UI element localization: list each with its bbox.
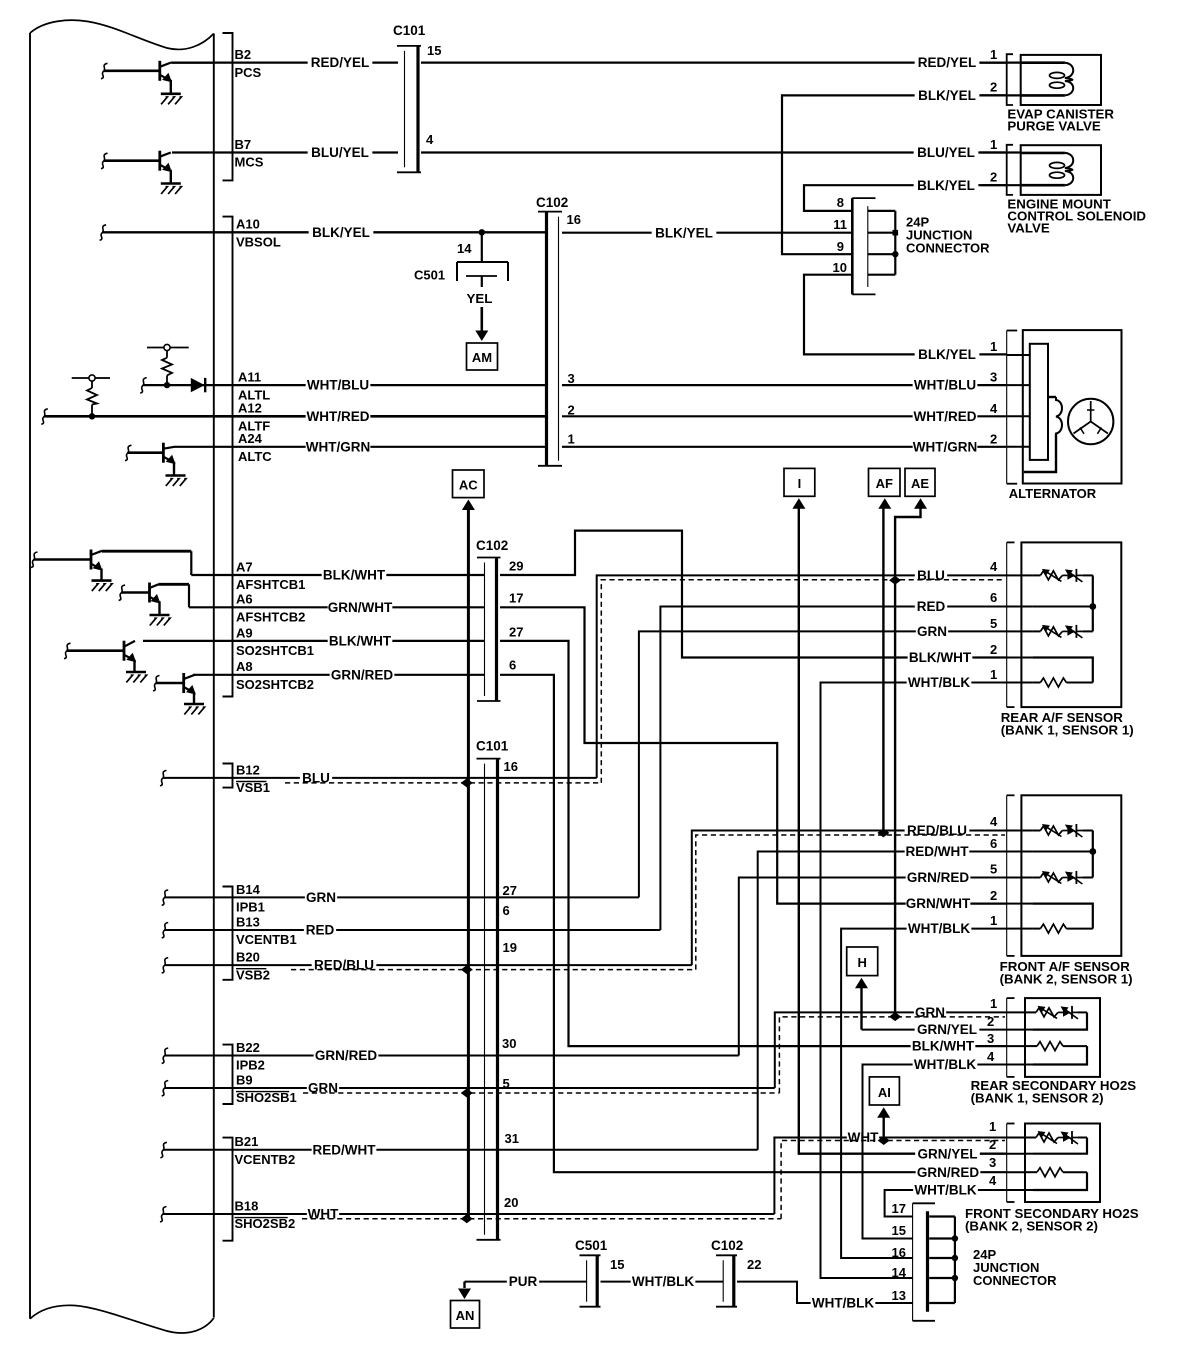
- svg-text:YEL: YEL: [467, 291, 493, 306]
- connector bracket pin B12: [223, 764, 233, 788]
- ground for Q1: [161, 93, 181, 96]
- svg-text:15: 15: [610, 1257, 624, 1272]
- svg-text:2: 2: [990, 888, 997, 903]
- svg-text:(BANK 1, SENSOR 2): (BANK 1, SENSOR 2): [971, 1091, 1104, 1106]
- svg-text:PUR: PUR: [509, 1274, 538, 1289]
- svg-text:9: 9: [837, 239, 844, 254]
- wire: WHT/BLK front secondary pin4 to junction pin17: [885, 1190, 1007, 1217]
- svg-text:1: 1: [989, 1119, 996, 1134]
- wire: [101, 153, 108, 169]
- wire arrow to AE: [914, 498, 927, 509]
- wire: B22 row GRN/RED (IPB2): [162, 1048, 169, 1064]
- svg-text:3: 3: [990, 370, 997, 385]
- label box AM (to another page): [467, 343, 498, 370]
- rear A/F sensor (bank 1, sensor 1): [1007, 542, 1122, 707]
- wire label BLK/YEL (EVAP): [915, 88, 980, 103]
- connector C102 (top): [538, 211, 562, 213]
- wire arrow to AI: [877, 1107, 890, 1118]
- svg-text:2: 2: [990, 80, 997, 95]
- rear secondary HO2S (bank 1, sensor 2): [1007, 998, 1100, 1077]
- node: shield diamond VSB1: [461, 778, 473, 787]
- wire label GRN: [305, 890, 337, 905]
- 24P junction connector (top): [852, 198, 895, 294]
- svg-text:WHT/BLU: WHT/BLU: [307, 378, 369, 393]
- node: shield diamond rear A/F (VSB1): [889, 576, 901, 585]
- svg-text:4: 4: [990, 401, 998, 416]
- node: junction dot ALTF/pull-up: [89, 413, 95, 419]
- svg-text:VCENTB1: VCENTB1: [236, 932, 297, 947]
- svg-text:4: 4: [990, 814, 998, 829]
- svg-text:22: 22: [747, 1257, 761, 1272]
- wire: WHT/BLK rear secondary pin4 to junction pin15: [863, 1065, 1007, 1239]
- svg-text:B13: B13: [236, 914, 260, 929]
- wire: [125, 445, 132, 461]
- svg-text:(BANK 1, SENSOR 1): (BANK 1, SENSOR 1): [1001, 723, 1134, 738]
- node: junction dot pin16 bus: [952, 1255, 958, 1261]
- svg-text:17: 17: [509, 591, 523, 606]
- wire label BLU (rear A/F): [915, 568, 947, 583]
- svg-text:A9: A9: [236, 625, 253, 640]
- svg-text:(BANK 2, SENSOR 2): (BANK 2, SENSOR 2): [965, 1219, 1098, 1234]
- front secondary HO2S (bank 2, sensor 2): [1007, 1124, 1100, 1203]
- svg-text:BLU/YEL: BLU/YEL: [917, 145, 975, 160]
- wire: BLK/YEL row A10 from C102-16 to junction pin11: [562, 232, 852, 234]
- svg-text:15: 15: [892, 1223, 906, 1238]
- svg-text:GRN/WHT: GRN/WHT: [906, 896, 971, 911]
- wire: BLK/YEL engine mount pin2 to junction pin8: [804, 185, 1007, 211]
- label box AI (to another page): [869, 1077, 899, 1105]
- wire: PUR to AN: [465, 1281, 587, 1283]
- wire: WHT/BLK from C501-15 to C102-22: [601, 1281, 724, 1283]
- svg-text:B7: B7: [235, 137, 252, 152]
- wire: WHT/RED from C102-2 to alternator pin4: [562, 415, 1007, 417]
- wire: junction pin10 to alternator BLK/YEL: [804, 275, 1007, 355]
- wire label GRN/RED: [330, 667, 395, 682]
- svg-text:6: 6: [990, 836, 997, 851]
- wire label BLU/YEL (right): [914, 145, 979, 160]
- svg-text:A11: A11: [238, 370, 261, 385]
- svg-text:20: 20: [504, 1195, 518, 1210]
- svg-text:A7: A7: [236, 559, 253, 574]
- svg-text:CONNECTOR: CONNECTOR: [906, 241, 990, 256]
- svg-text:PCS: PCS: [235, 65, 262, 80]
- svg-text:(BANK 2, SENSOR 1): (BANK 2, SENSOR 1): [1000, 972, 1133, 987]
- svg-text:B12: B12: [236, 762, 260, 777]
- svg-text:13: 13: [892, 1288, 906, 1303]
- svg-text:BLU: BLU: [917, 568, 945, 583]
- node: junction dot ALTL/pull-up: [164, 382, 170, 388]
- svg-text:C501: C501: [414, 268, 445, 283]
- svg-text:GRN/YEL: GRN/YEL: [917, 1022, 977, 1037]
- svg-text:B2: B2: [235, 47, 252, 62]
- svg-text:WHT/BLK: WHT/BLK: [914, 1183, 976, 1198]
- svg-text:BLK/WHT: BLK/WHT: [323, 568, 386, 583]
- svg-text:1: 1: [990, 137, 997, 152]
- svg-text:GRN/YEL: GRN/YEL: [917, 1146, 977, 1161]
- svg-text:1: 1: [990, 996, 997, 1011]
- wire label GRN: [307, 1081, 339, 1096]
- connector bracket pins B14-B20: [223, 887, 233, 980]
- wire: I line down to front secondary HO2S GRN/YEL: [799, 508, 1007, 1154]
- svg-text:WHT/GRN: WHT/GRN: [913, 439, 978, 454]
- wire label BLK/WHT (rear A/F): [908, 650, 973, 665]
- svg-text:WHT/BLK: WHT/BLK: [632, 1274, 694, 1289]
- wire label WHT/BLK (bottom): [631, 1274, 696, 1289]
- svg-text:1: 1: [990, 667, 997, 682]
- svg-text:14: 14: [457, 241, 472, 256]
- wire label BLK/WHT (rear secondary): [911, 1039, 976, 1054]
- connector C101 (top): [397, 45, 421, 47]
- svg-text:A24: A24: [238, 431, 263, 446]
- wire: B13 row RED (VCENTB1): [162, 923, 169, 939]
- connector bracket pins B2-B7: [223, 33, 233, 180]
- wire label RED/YEL (right): [915, 55, 980, 70]
- svg-text:VSB1: VSB1: [236, 780, 270, 795]
- wire label RED (rear A/F): [915, 599, 947, 614]
- wire arrow to AF: [878, 498, 891, 509]
- svg-text:17: 17: [892, 1201, 906, 1216]
- svg-text:2: 2: [990, 170, 997, 185]
- wire: WHT/BLK rear A/F pin1 to junction pin14: [821, 683, 1007, 1279]
- svg-text:GRN/WHT: GRN/WHT: [328, 600, 393, 615]
- wire label WHT: [307, 1207, 339, 1222]
- svg-text:C101: C101: [393, 23, 426, 38]
- node: junction dot pin15 bus: [952, 1235, 958, 1241]
- wire label WHT/RED (right): [913, 409, 978, 424]
- svg-text:GRN/RED: GRN/RED: [315, 1048, 378, 1063]
- wire: RED/YEL from C101-15 to EVAP valve pin1: [421, 61, 1007, 63]
- svg-text:1: 1: [990, 47, 997, 62]
- svg-text:8: 8: [837, 195, 844, 210]
- wire: RED B13 riser to rear A/F sensor pin6: [660, 607, 1006, 931]
- ground for Q2: [161, 182, 181, 185]
- wire label BLU: [300, 770, 332, 785]
- svg-text:AFSHTCB1: AFSHTCB1: [236, 577, 305, 592]
- wire: B18 row WHT (SHO2SB2): [160, 1207, 167, 1223]
- svg-text:10: 10: [833, 260, 847, 275]
- svg-text:SO2SHTCB2: SO2SHTCB2: [236, 677, 314, 692]
- svg-text:30: 30: [502, 1036, 516, 1051]
- svg-text:BLU/YEL: BLU/YEL: [311, 145, 369, 160]
- connector bracket pins B22-B9: [223, 1045, 233, 1104]
- svg-text:RED/YEL: RED/YEL: [311, 55, 370, 70]
- svg-text:27: 27: [503, 883, 517, 898]
- svg-text:3: 3: [568, 371, 575, 386]
- svg-text:I: I: [798, 476, 802, 491]
- wire label RED: [304, 923, 336, 938]
- pull-up resistor on ALTF line: [72, 375, 110, 416]
- wire: RED/BLU B20 riser to front A/F sensor pin4: [692, 831, 1007, 966]
- svg-text:GRN/RED: GRN/RED: [907, 870, 970, 885]
- svg-text:4: 4: [426, 132, 434, 147]
- svg-text:AF: AF: [876, 476, 893, 491]
- svg-text:A6: A6: [236, 592, 253, 607]
- shield dashed riser SHO2SB1: [779, 1017, 1005, 1093]
- EVAP canister purge valve: [980, 54, 1101, 105]
- wire: RED/WHT B21 riser to front A/F sensor pin6: [758, 852, 1007, 1150]
- shield dashed riser SHO2SB2: [781, 1141, 1005, 1219]
- wire: GRN/YEL rear secondary pin2 to H riser: [862, 1029, 1007, 1031]
- svg-text:BLK/YEL: BLK/YEL: [655, 225, 713, 240]
- svg-text:11: 11: [833, 217, 847, 232]
- node: shield diamond front secondary HO2S: [878, 1136, 890, 1145]
- svg-text:WHT/BLU: WHT/BLU: [914, 378, 976, 393]
- wire label BLK/WHT: [328, 633, 393, 648]
- wire: BLK/WHT C102-27 to rear secondary HO2S pin3: [500, 641, 1007, 1046]
- svg-text:5: 5: [990, 616, 997, 631]
- wire: A9 row BLK/WHT to C102 pin27: [143, 640, 484, 642]
- svg-text:19: 19: [503, 940, 517, 955]
- wire label GRN/RED: [314, 1048, 379, 1063]
- svg-text:4: 4: [989, 1173, 997, 1188]
- wire: BLU/YEL from C101-4 to engine mount valve pin1: [421, 151, 1007, 153]
- wire: [101, 63, 108, 79]
- svg-text:AC: AC: [459, 478, 478, 493]
- svg-text:2: 2: [989, 1137, 996, 1152]
- svg-text:ALTERNATOR: ALTERNATOR: [1009, 486, 1097, 501]
- wire label WHT/BLK (rear A/F): [907, 675, 972, 690]
- svg-text:14: 14: [892, 1265, 907, 1280]
- svg-text:GRN/RED: GRN/RED: [917, 1165, 980, 1180]
- svg-text:BLK/YEL: BLK/YEL: [918, 347, 976, 362]
- svg-text:A8: A8: [236, 659, 253, 674]
- wire label GRN/WHT: [328, 600, 393, 615]
- wire label BLU/YEL: [308, 145, 373, 160]
- node: junction dot BLK/YEL at C501 tap: [479, 229, 485, 235]
- wire label WHT/BLU: [306, 378, 371, 393]
- svg-text:5: 5: [503, 1076, 510, 1091]
- shield dashed riser VSB1: [601, 580, 1005, 783]
- ground for Q7: [184, 703, 204, 706]
- wire label RED/BLU: [312, 958, 377, 973]
- svg-text:29: 29: [509, 559, 523, 574]
- svg-text:VALVE: VALVE: [1007, 221, 1049, 236]
- wire: GRN/RED B22 riser to front A/F sensor pin5: [739, 878, 1007, 1056]
- label box AF (to another page): [869, 468, 901, 496]
- wire: AF shield line down to front A/F sensor shield: [882, 508, 884, 833]
- wire: WHT/BLK front A/F pin1 to junction pin16: [841, 929, 1007, 1258]
- wire label WHT/GRN (right): [913, 439, 978, 454]
- alternator: [1007, 330, 1122, 484]
- svg-text:4: 4: [987, 1049, 995, 1064]
- svg-text:BLK/WHT: BLK/WHT: [329, 634, 392, 649]
- svg-text:16: 16: [892, 1245, 906, 1260]
- label box H (to another page): [847, 947, 878, 976]
- wire: A6 row GRN/WHT to C102 pin17: [189, 606, 484, 608]
- svg-text:RED/YEL: RED/YEL: [918, 55, 977, 70]
- wire arrow to I: [792, 498, 805, 509]
- svg-text:BLK/WHT: BLK/WHT: [909, 650, 972, 665]
- wire label GRN/YEL (front secondary): [915, 1146, 980, 1161]
- svg-text:C102: C102: [536, 195, 568, 210]
- svg-text:6: 6: [509, 658, 516, 673]
- svg-text:MCS: MCS: [235, 155, 264, 170]
- svg-text:1: 1: [990, 339, 997, 354]
- ground for Q6: [126, 671, 146, 674]
- svg-text:VSB2: VSB2: [236, 967, 270, 982]
- svg-text:AE: AE: [911, 476, 929, 491]
- wire: ALTC row A24 WHT/GRN to C102: [174, 446, 545, 448]
- ECM control module outline (left, torn edges): [30, 20, 214, 1333]
- node: shield diamond rear secondary HO2S: [889, 1012, 901, 1021]
- shield dashed line for VSB2: [291, 969, 696, 971]
- wire: WHT B18 riser to front secondary HO2S pin1: [774, 1138, 1006, 1215]
- connector C101 (bottom): [477, 758, 501, 760]
- label box I (to another page): [784, 468, 815, 496]
- wire: BLU VSB1 riser to rear A/F sensor pin4: [597, 575, 1007, 778]
- wire arrow to AN: [463, 1282, 465, 1288]
- wire label WHT/BLK (junction 13): [811, 1296, 876, 1311]
- node: junction dot pin11 bus: [893, 230, 899, 236]
- connector C501 (bottom): [580, 1254, 601, 1256]
- wire label WHT/BLU (right): [913, 378, 978, 393]
- wire arrow to H: [855, 978, 868, 989]
- svg-text:BLK/YEL: BLK/YEL: [917, 178, 975, 193]
- connector bracket pins A10-A8: [223, 217, 233, 697]
- svg-text:WHT/BLK: WHT/BLK: [908, 675, 970, 690]
- ground for Q5: [150, 614, 170, 617]
- wire: ALTL row A11 WHT/BLU to C102: [140, 378, 147, 394]
- wire label RED/YEL: [308, 55, 373, 70]
- svg-text:IPB2: IPB2: [236, 1058, 265, 1073]
- svg-text:6: 6: [990, 590, 997, 605]
- wire label RED/BLU (front A/F): [905, 823, 970, 838]
- svg-text:RED: RED: [306, 923, 335, 938]
- wire: B14 row GRN (IPB1): [162, 890, 169, 906]
- shield dashed line for VSB1: [285, 782, 601, 784]
- svg-text:RED/WHT: RED/WHT: [906, 844, 970, 859]
- wire label WHT/BLK (front secondary): [913, 1183, 978, 1198]
- wire label GRN/YEL (rear secondary): [915, 1022, 980, 1037]
- wire: B21 row RED/WHT (VCENTB2): [160, 1142, 167, 1158]
- wire label BLK/YEL (junction): [652, 225, 717, 240]
- shield dashed line for SHO2SB2: [302, 1218, 781, 1220]
- wire: BLK/WHT C102-29 to rear A/F sensor pin2: [500, 531, 1007, 658]
- svg-text:WHT/BLK: WHT/BLK: [908, 921, 970, 936]
- wire arrow to AC (shield bus): [462, 500, 475, 511]
- node: shield diamond SHO2SB1: [461, 1089, 473, 1098]
- svg-text:27: 27: [509, 625, 523, 640]
- shield dashed riser VSB2: [696, 835, 1005, 970]
- svg-text:B20: B20: [236, 950, 260, 965]
- connector C102 (middle): [477, 557, 501, 559]
- wire label RED/WHT (front A/F): [905, 844, 970, 859]
- wire: ALTF row A12 WHT/RED to C102: [41, 409, 48, 425]
- svg-text:2: 2: [990, 642, 997, 657]
- wire label BLK/WHT: [322, 568, 387, 583]
- svg-text:B9: B9: [236, 1072, 253, 1087]
- wire: [153, 676, 160, 692]
- svg-text:3: 3: [989, 1155, 996, 1170]
- wire: GRN/WHT C102-17 to front A/F sensor pin2: [500, 607, 1007, 903]
- svg-text:15: 15: [427, 43, 441, 58]
- svg-text:RED: RED: [917, 599, 946, 614]
- svg-text:GRN: GRN: [306, 890, 336, 905]
- svg-text:RED/WHT: RED/WHT: [313, 1142, 377, 1157]
- svg-text:GRN/RED: GRN/RED: [331, 667, 394, 682]
- svg-text:IPB1: IPB1: [236, 900, 265, 915]
- svg-text:C501: C501: [575, 1238, 608, 1253]
- ground for Q4: [92, 579, 112, 582]
- svg-text:AN: AN: [456, 1308, 475, 1323]
- front A/F sensor (bank 2, sensor 1): [1007, 795, 1122, 956]
- svg-text:16: 16: [504, 759, 518, 774]
- node: shield diamond front A/F: [877, 828, 889, 837]
- transistor Q4 (AFSHTCB1 driver): [31, 550, 191, 581]
- diode D1 on ALTL line: [191, 378, 205, 392]
- svg-text:WHT/RED: WHT/RED: [307, 409, 370, 424]
- svg-text:BLK/WHT: BLK/WHT: [912, 1039, 975, 1054]
- svg-text:B18: B18: [235, 1198, 259, 1213]
- svg-text:C102: C102: [711, 1238, 743, 1253]
- wire: A7 row BLK/WHT to C102 pin29: [191, 574, 484, 576]
- svg-text:SHO2SB1: SHO2SB1: [236, 1090, 297, 1105]
- wire label WHT/GRN: [306, 439, 371, 454]
- ground for Q3: [166, 474, 186, 477]
- wire: [64, 643, 71, 659]
- shield dashed line for SHO2SB1: [303, 1092, 779, 1094]
- node: junction dot pin9 bus: [892, 251, 898, 257]
- svg-text:PURGE VALVE: PURGE VALVE: [1007, 119, 1100, 134]
- engine mount control solenoid valve: [980, 145, 1101, 195]
- svg-text:31: 31: [505, 1131, 519, 1146]
- svg-text:1: 1: [568, 432, 575, 447]
- transistor Q2 (MCS driver): [101, 151, 172, 184]
- wire arrow to AM: [480, 307, 483, 331]
- svg-text:RED/BLU: RED/BLU: [907, 823, 967, 838]
- wire: A8 row GRN/RED to C102 pin6: [193, 674, 484, 676]
- svg-text:A12: A12: [238, 401, 262, 416]
- wire: WHT/BLK from C102-22 to junction pin13: [737, 1282, 913, 1303]
- svg-text:CONNECTOR: CONNECTOR: [973, 1273, 1057, 1288]
- svg-text:AM: AM: [472, 350, 492, 365]
- wire: BLK/YEL EVAP pin2 to junction pin9: [782, 95, 1007, 254]
- svg-text:C101: C101: [476, 739, 509, 754]
- wire label BLK/YEL: [309, 225, 374, 240]
- wire label WHT/BLK (front A/F): [907, 921, 972, 936]
- svg-text:VBSOL: VBSOL: [236, 235, 281, 250]
- wire label RED/WHT: [312, 1142, 377, 1157]
- wire: AE shield line down to rear sensors shields: [895, 508, 920, 1017]
- svg-text:ALTC: ALTC: [238, 449, 272, 464]
- wire label WHT/RED: [306, 409, 371, 424]
- wire label GRN/RED (front A/F): [906, 870, 971, 885]
- wire: B9 row GRN (SHO2SB1): [162, 1081, 169, 1097]
- svg-text:1: 1: [990, 913, 997, 928]
- wire: GRN B14 riser to rear A/F sensor pin5: [639, 631, 1007, 897]
- transistor Q1 (PCS driver): [101, 61, 214, 94]
- 24P junction connector (bottom): [913, 1203, 955, 1321]
- connector C102 (bottom): [716, 1254, 737, 1256]
- svg-text:B14: B14: [236, 882, 261, 897]
- svg-text:A10: A10: [236, 217, 260, 232]
- wire label WHT/BLK (rear secondary): [913, 1057, 978, 1072]
- wire label PUR: [507, 1274, 539, 1289]
- wire: GRN B9 riser to rear secondary HO2S pin1: [775, 1012, 1007, 1088]
- capacitor C501 (noise condenser): [457, 232, 508, 287]
- svg-text:3: 3: [987, 1031, 994, 1046]
- svg-text:WHT/GRN: WHT/GRN: [306, 439, 371, 454]
- svg-text:AFSHTCB2: AFSHTCB2: [236, 610, 305, 625]
- wire: PCS row B2 RED/YEL to C101: [172, 61, 398, 63]
- svg-text:VCENTB2: VCENTB2: [235, 1152, 296, 1167]
- svg-text:GRN: GRN: [915, 1005, 945, 1020]
- svg-text:C102: C102: [476, 538, 508, 553]
- wire: B20 row RED/BLU (VSB2): [162, 958, 169, 974]
- svg-text:RED/BLU: RED/BLU: [314, 958, 374, 973]
- transistor Q5 (AFSHTCB2 driver): [119, 583, 189, 616]
- svg-text:GRN: GRN: [917, 624, 947, 639]
